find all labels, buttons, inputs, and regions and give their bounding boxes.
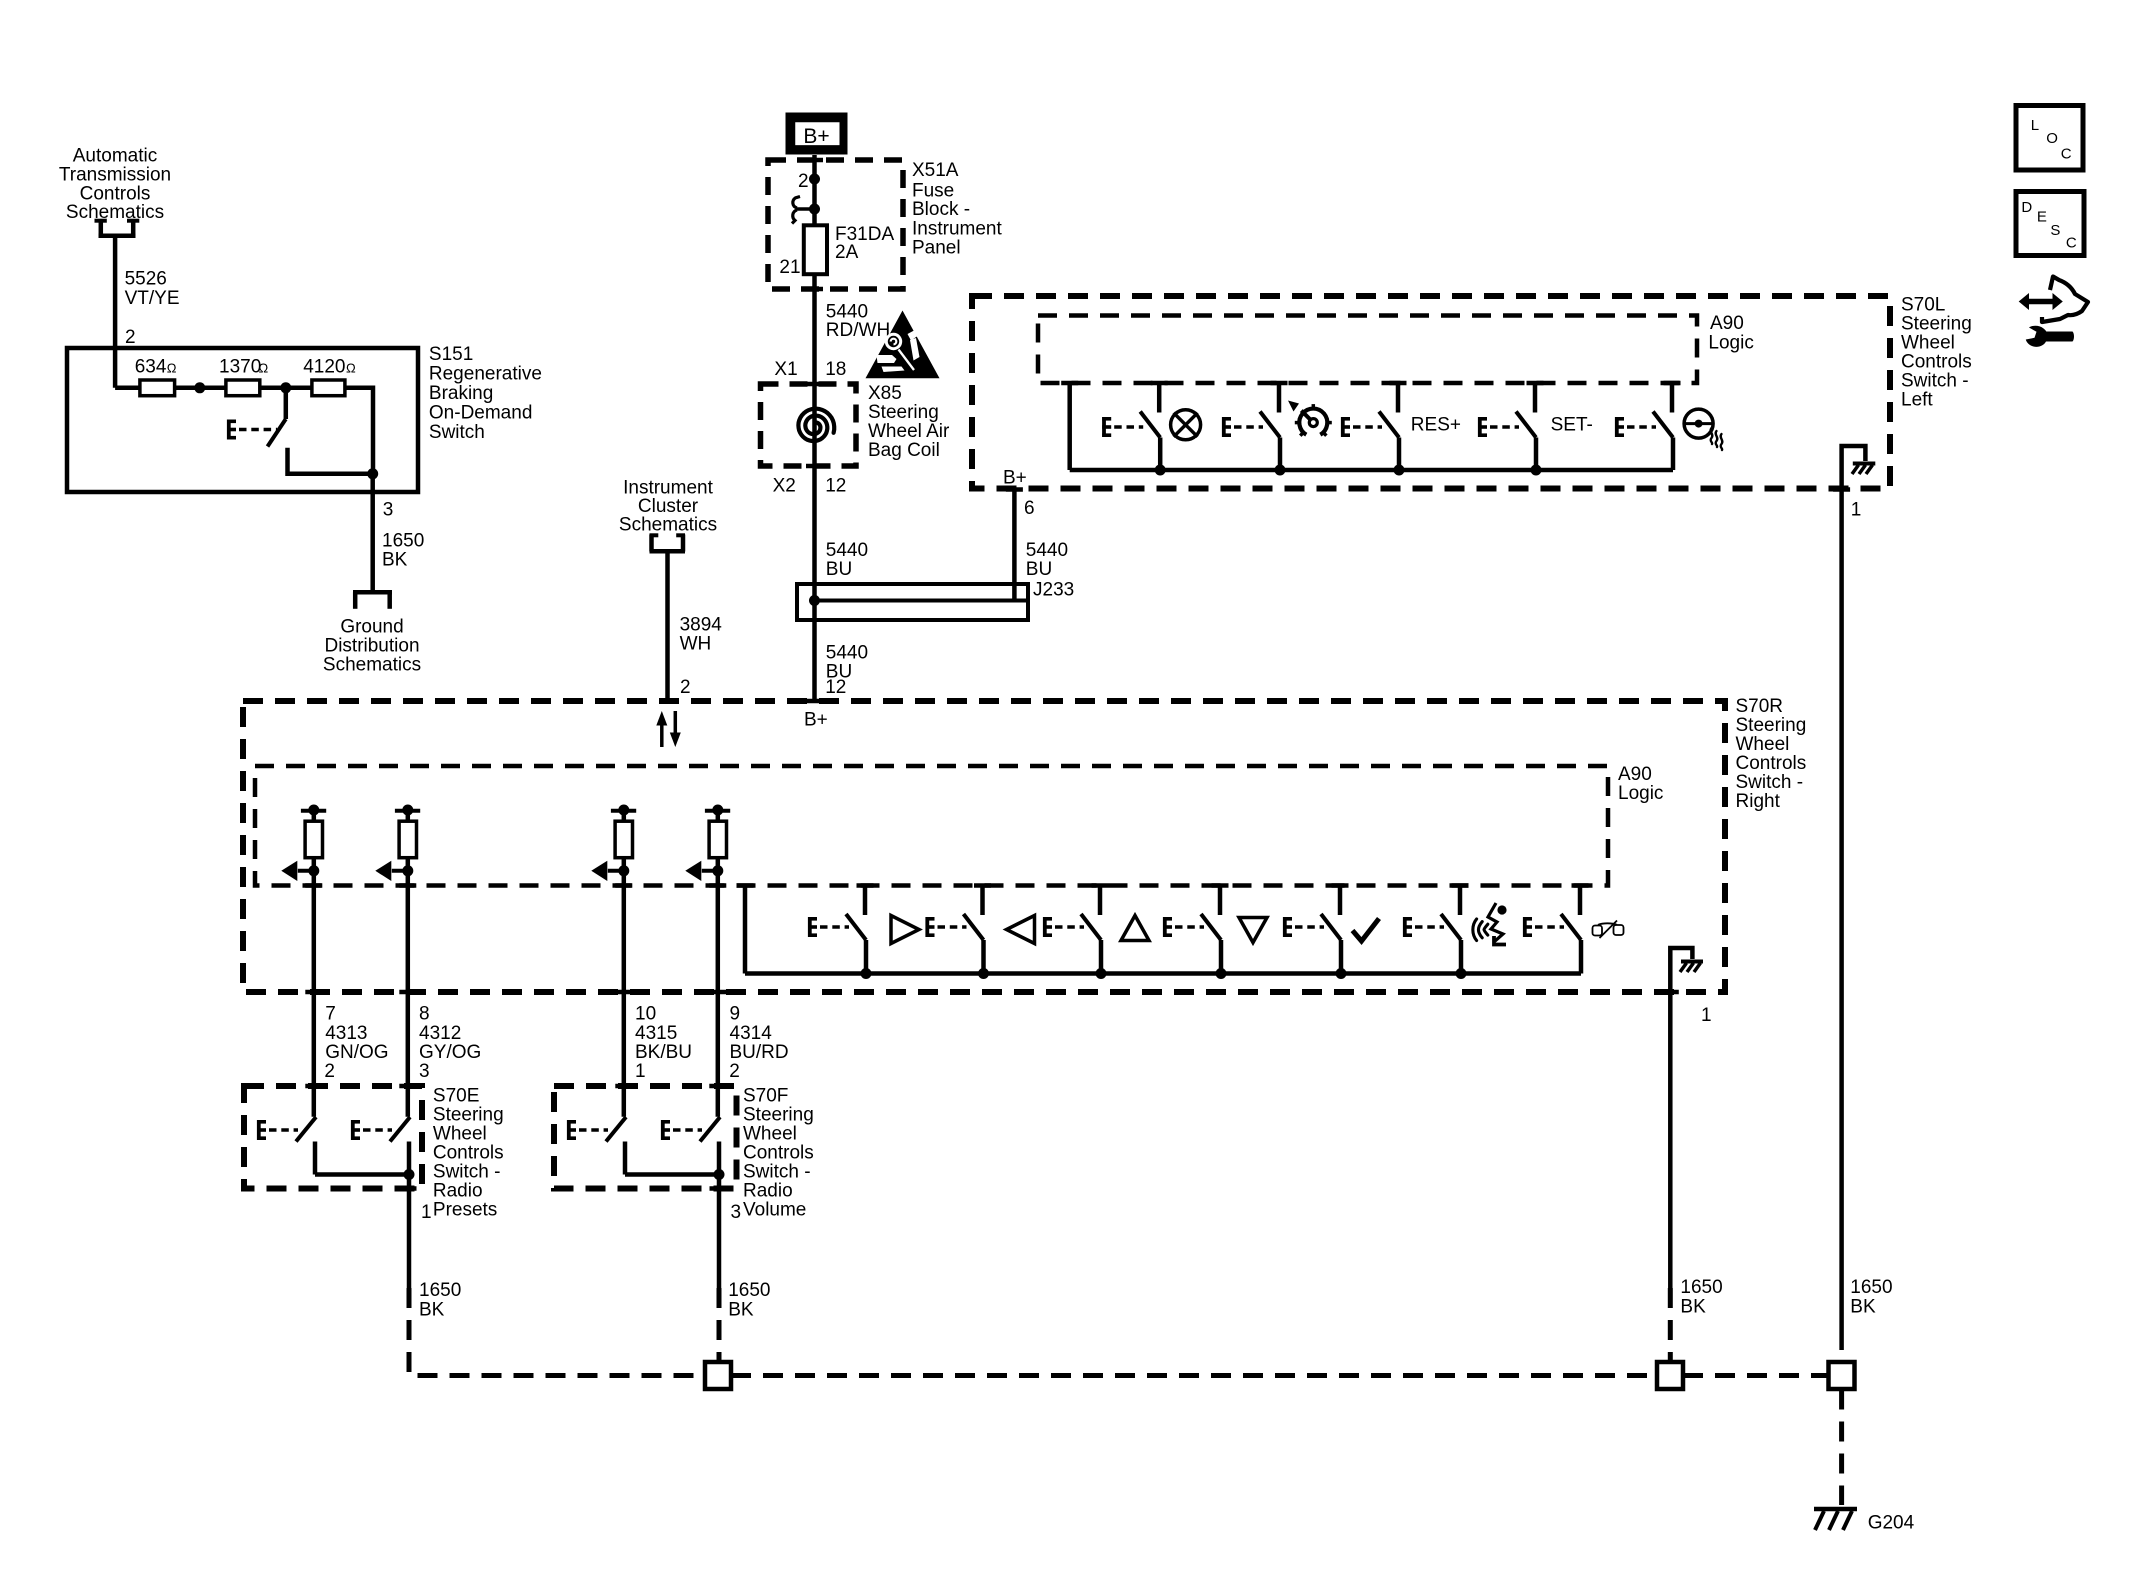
label 1650 BK [382,530,424,570]
svg-text:1: 1 [635,1061,646,1082]
svg-text:A90: A90 [1710,313,1744,334]
svg-text:S70E: S70E [433,1085,479,1106]
svg-text:2A: 2A [835,242,859,263]
svg-text:BU: BU [1026,559,1052,580]
svg-text:Schematics: Schematics [619,515,717,536]
icon previous track (left triangle) [1007,916,1035,944]
wire R2-R3 [260,386,312,391]
svg-text:1650: 1650 [419,1280,461,1301]
svg-text:2: 2 [729,1061,740,1082]
label Instrument Cluster Schematics [619,477,717,535]
legend adjust icon double arrow [2019,293,2063,310]
icon up (triangle) [1121,916,1149,941]
crossbar S70E bottom [400,1186,417,1191]
label 5440 BU below J233 [826,643,868,683]
wire 5440 RD/WH fuse to coil to J233 to S70R [812,274,817,699]
svg-text:B+: B+ [804,710,828,731]
svg-text:Radio: Radio [433,1180,483,1201]
wire S70L switch bus [1070,468,1673,473]
svg-text:6: 6 [1024,498,1035,519]
wire 3894 WH [665,552,670,700]
svg-text:1370: 1370 [219,357,261,378]
svg-text:8: 8 [419,1004,430,1025]
wire S151 internal top row [115,386,140,391]
wire S70R switch bus [745,971,1581,976]
switch lower contact S151 [288,448,373,474]
svg-text:Ground: Ground [340,617,403,638]
svg-text:4314: 4314 [730,1023,773,1044]
label S70L Steering Wheel Controls Switch - Left [1901,294,1972,410]
svg-text:D: D [2021,199,2032,216]
node fuse top [809,204,820,215]
svg-text:Controls: Controls [433,1142,504,1163]
label 1650 BK S70F [728,1280,770,1321]
junction node S70E output [404,1169,415,1180]
svg-text:Radio: Radio [743,1180,793,1201]
switch coil symbol S151 [227,420,277,440]
svg-text:Wheel: Wheel [1736,734,1790,755]
svg-text:2: 2 [798,171,809,192]
svg-text:SET-: SET- [1551,415,1593,436]
svg-text:B+: B+ [803,125,829,148]
splice box (S70L) [1829,1362,1855,1389]
horn switch S70L unit 5 [1615,383,1681,470]
wire 5526 VT/YE [113,236,118,388]
svg-text:2: 2 [324,1061,335,1082]
svg-text:7: 7 [325,1004,336,1025]
label 5440 BU right [1026,540,1068,580]
resistor 1370 ohm [226,380,260,396]
wire end cap at S70R serial [659,699,676,704]
svg-text:2: 2 [125,327,136,348]
select switch S70R unit 5 [1283,886,1349,980]
svg-text:Automatic: Automatic [73,146,157,167]
svg-text:4120: 4120 [303,357,345,378]
svg-text:Left: Left [1901,389,1933,410]
wire S70F output link [625,1172,719,1177]
wire S70E output link [315,1172,409,1177]
label 3894 WH [680,614,723,654]
svg-text:5526: 5526 [125,269,167,290]
svg-text:10: 10 [635,1004,656,1025]
volume-up switch S70R unit 3 [1043,886,1109,980]
fuse F31DA 2A body [804,225,827,274]
svg-text:Wheel: Wheel [433,1123,487,1144]
svg-text:1650: 1650 [1680,1277,1722,1298]
label A90 Logic (S70R) [1618,764,1663,804]
air bag warning triangle [866,311,940,379]
label 5526 VT/YE [125,269,180,310]
label S70F Steering Wheel Controls Switch - Radio Volume [743,1085,814,1220]
label 5440 BU left [826,540,868,580]
crossbar S70L pin1 [1833,487,1850,492]
svg-text:Steering: Steering [1736,715,1807,736]
svg-text:5440: 5440 [826,540,868,561]
svg-text:Switch -: Switch - [1901,370,1969,391]
internal ground jog S70R [1670,948,1692,1288]
svg-text:Controls: Controls [1901,351,1972,372]
wire end cap at S70R B+ [806,699,823,704]
label X51A Fuse Block - Instrument Panel [912,160,1002,258]
icon select (check mark) [1353,919,1380,942]
svg-text:BU/RD: BU/RD [730,1042,789,1063]
svg-text:S70R: S70R [1736,696,1784,717]
wire 1650 BK dashed from S70F [717,1288,722,1362]
svg-text:X85: X85 [868,383,902,404]
crossbar S70F bottom [710,1186,727,1191]
wire 1650 BK dashed from S70E [409,1288,705,1376]
svg-text:Block -: Block - [912,199,970,220]
wire S70F pin3 down [717,1175,722,1289]
crossbar X51A bottom [806,287,823,292]
resistor 4120 ohm [312,380,345,396]
svg-text:634: 634 [135,357,167,378]
mute switch S70L unit 1 [1102,383,1168,476]
icon down (triangle) [1239,918,1267,943]
sense resistor 4 S70R [685,805,730,1117]
svg-text:RD/WH: RD/WH [826,320,890,341]
svg-text:VT/YE: VT/YE [125,288,180,309]
volume switch S70F unit 1 [567,1117,626,1175]
svg-text:12: 12 [825,476,846,497]
switch assembly S70F box [554,1086,737,1189]
svg-text:1: 1 [1701,1005,1712,1026]
sense resistor 1 S70R [281,805,326,1117]
wire B+ into fuse [812,155,817,225]
label S70E Steering Wheel Controls Switch - Radio Presets [433,1085,504,1220]
svg-text:4312: 4312 [419,1023,461,1044]
off-page connector (Instrument Cluster) [650,535,686,552]
off-page connector (Automatic Transmission Controls) [95,220,140,237]
svg-text:2: 2 [680,677,691,698]
logic module A90 box (S70R) [255,766,1608,886]
label A90 Logic (S70L) [1708,313,1753,353]
svg-text:Wheel: Wheel [1901,332,1955,353]
svg-text:Schematics: Schematics [323,655,421,676]
logic module A90 box (S70L) [1038,316,1697,384]
labels wire 4314 BU/RD pins 9-2 [729,1004,788,1082]
svg-text:X2: X2 [773,476,796,497]
icon voice recognition [1473,903,1507,945]
phone switch S70R unit 7 [1523,886,1589,974]
svg-text:B+: B+ [1003,468,1027,489]
power terminal B+ [790,117,844,151]
label Automatic Transmission Controls Schematics [59,146,171,224]
svg-text:C: C [2066,234,2077,251]
svg-text:1650: 1650 [1850,1277,1892,1298]
svg-text:1650: 1650 [382,530,424,551]
wire S70E pin1 down [407,1175,412,1289]
volume switch S70F unit 2 [661,1117,720,1175]
ground bus dashed right [1683,1373,1829,1378]
svg-text:1: 1 [421,1202,432,1223]
svg-text:S: S [2050,222,2060,239]
svg-text:BK: BK [382,549,408,570]
preset switch S70E unit 2 [351,1117,410,1175]
labels wire 4315 BK/BU pins 10-1 [635,1004,692,1082]
svg-text:Schematics: Schematics [66,202,164,223]
svg-text:Ω: Ω [346,361,356,376]
wire 5440 BU S70L pin6 to J233 [1012,490,1017,601]
junction node R1/R2 [194,382,205,393]
splice J233 box [797,584,1028,620]
coil X85 (clockspring spiral) [798,409,834,441]
svg-text:BK: BK [1850,1297,1876,1318]
svg-text:O: O [2046,130,2058,147]
svg-text:1: 1 [1851,499,1862,520]
svg-text:BK: BK [1680,1297,1706,1318]
wire dashed to G204 [1839,1390,1844,1506]
legend LOC box [2016,106,2083,171]
fuse clip symbol [792,197,812,224]
svg-text:Right: Right [1736,791,1781,812]
svg-text:Wheel: Wheel [743,1123,797,1144]
svg-text:3894: 3894 [680,614,723,635]
icon lamp-off (circle X) [1171,410,1201,440]
wire 1650 BK dashed from S70R [1668,1288,1673,1362]
junction node S70F output [714,1169,725,1180]
legend DESC box [2016,192,2084,256]
svg-text:X1: X1 [774,359,797,380]
svg-text:Bag Coil: Bag Coil [868,440,940,461]
svg-text:Ω: Ω [167,361,177,376]
ground bus dashed middle [731,1373,1657,1378]
svg-text:Steering: Steering [743,1104,814,1125]
svg-text:5440: 5440 [826,643,868,664]
label 4120 ohm [303,357,356,378]
junction node J233 [809,595,820,606]
svg-text:1650: 1650 [728,1280,770,1301]
label 1370 ohm [219,357,269,378]
svg-text:Volume: Volume [743,1199,806,1220]
sense resistor 3 S70R [591,805,636,1117]
label 5440 RD/WH [826,302,890,341]
svg-text:G204: G204 [1868,1513,1915,1534]
labels wire 4313 GN/OG pins 7-2 [324,1004,388,1082]
resistor 634 ohm [140,380,175,396]
svg-text:C: C [2061,145,2072,162]
wire R3 to output corner [345,388,373,474]
svg-text:18: 18 [825,359,846,380]
svg-text:X51A: X51A [912,160,959,181]
label S70R Steering Wheel Controls Switch - Right [1736,696,1807,812]
svg-text:3: 3 [383,500,394,521]
seek-up switch S70R unit 1 [808,886,874,980]
svg-text:Logic: Logic [1618,783,1663,804]
crossbar S70R pin1 [1662,990,1679,995]
svg-text:Presets: Presets [433,1199,497,1220]
preset switch S70E unit 1 [257,1117,316,1175]
svg-text:Controls: Controls [1736,753,1807,774]
svg-text:12: 12 [825,677,846,698]
label 1650 BK S70E [419,1280,461,1321]
svg-text:BK: BK [419,1300,445,1321]
svg-text:3: 3 [419,1061,430,1082]
wire A90 riser (S70R bus left) [737,886,754,974]
switch S151 box [67,348,418,492]
node X51A pin 2 [809,174,820,185]
svg-text:Steering: Steering [1901,313,1972,334]
icon cruise speedometer [1288,401,1332,436]
sense resistor 2 S70R [375,805,420,1117]
SET- switch S70L unit 4 [1478,383,1544,476]
svg-text:Transmission: Transmission [59,165,171,186]
icon next track (right triangle) [891,916,919,944]
ground G204 symbol [1814,1509,1857,1530]
svg-text:Steering: Steering [868,402,939,423]
chassis ground symbol S70L [1852,464,1875,475]
labels 1650 BK right pair [1680,1277,1892,1318]
svg-text:Switch -: Switch - [743,1161,811,1182]
wire R1-R2 [175,386,226,391]
splice box (S70R) [1657,1362,1683,1389]
svg-text:5440: 5440 [1026,540,1068,561]
crossbar X85 top [806,382,823,387]
svg-text:Panel: Panel [912,237,961,258]
voice recognition switch S70R unit 6 [1403,886,1469,980]
svg-text:S151: S151 [429,344,473,365]
label S151 Regenerative Braking On-Demand Switch [429,344,542,443]
svg-text:Steering: Steering [433,1104,504,1125]
svg-text:S70L: S70L [1901,294,1945,315]
label F31DA 2A [835,224,894,263]
fuse block X51A box [768,160,903,289]
wire 1650 BK from S151 pin 3 [370,474,375,593]
label Ground Distribution Schematics [323,617,421,676]
switch assembly S70L box [972,296,1890,489]
svg-text:Distribution: Distribution [324,636,419,657]
svg-text:GY/OG: GY/OG [419,1042,481,1063]
crossbar X51A top [806,158,823,163]
svg-text:E: E [2037,209,2047,226]
svg-text:BK: BK [728,1300,754,1321]
cruise on-off switch S70L unit 2 [1222,383,1288,476]
air bag coil connector X85 box [761,384,857,466]
seek-down switch S70R unit 2 [926,886,992,980]
icon phone [1593,921,1624,939]
svg-text:WH: WH [680,633,712,654]
wire A90 riser (S70L bus left) [1061,383,1078,470]
svg-text:Controls: Controls [743,1142,814,1163]
svg-text:On-Demand: On-Demand [429,402,533,423]
icon horn [1684,409,1722,450]
crossbar S70L pin6 [1006,487,1023,492]
svg-text:21: 21 [779,257,800,278]
junction node R2/R3 switch tap [280,382,291,393]
svg-text:J233: J233 [1033,580,1074,601]
legend wrench icon [2026,326,2074,347]
splice S207 box (S70F) [705,1362,731,1389]
svg-text:A90: A90 [1618,764,1652,785]
switch assembly S70R box [243,701,1725,992]
svg-text:RES+: RES+ [1411,415,1461,436]
svg-text:Logic: Logic [1708,332,1753,353]
chassis ground symbol S70R [1680,962,1703,973]
svg-text:BU: BU [826,559,852,580]
svg-text:GN/OG: GN/OG [325,1042,388,1063]
volume-down switch S70R unit 4 [1163,886,1229,980]
legend adjust icon outline arrow [2042,277,2088,323]
svg-text:S70F: S70F [743,1085,788,1106]
svg-text:Braking: Braking [429,383,493,404]
svg-text:Switch -: Switch - [433,1161,501,1182]
RES+ switch S70L unit 3 [1341,383,1407,476]
svg-text:3: 3 [731,1202,742,1223]
svg-text:Wheel Air: Wheel Air [868,421,950,442]
internal ground jog S70L [1842,446,1866,1350]
junction node S151 output [367,468,378,479]
svg-text:Regenerative: Regenerative [429,364,542,385]
off-page connector (Ground Distribution) [353,592,392,609]
switch assembly S70E box [244,1086,422,1189]
label X85 Steering Wheel Air Bag Coil [868,383,950,461]
svg-text:BK/BU: BK/BU [635,1042,692,1063]
svg-text:4313: 4313 [325,1023,367,1044]
bidirectional data arrows [656,711,681,747]
svg-text:L: L [2031,117,2039,134]
svg-text:Ω: Ω [259,361,269,376]
svg-text:Switch: Switch [429,422,485,443]
svg-text:4315: 4315 [635,1023,677,1044]
labels wire 4312 GY/OG pins 8-3 [419,1004,481,1082]
svg-text:Switch -: Switch - [1736,772,1804,793]
label 634 ohm [135,357,177,378]
switch blade S151 [268,388,286,447]
svg-text:9: 9 [730,1004,741,1025]
crossbar X85 bottom [806,464,823,469]
